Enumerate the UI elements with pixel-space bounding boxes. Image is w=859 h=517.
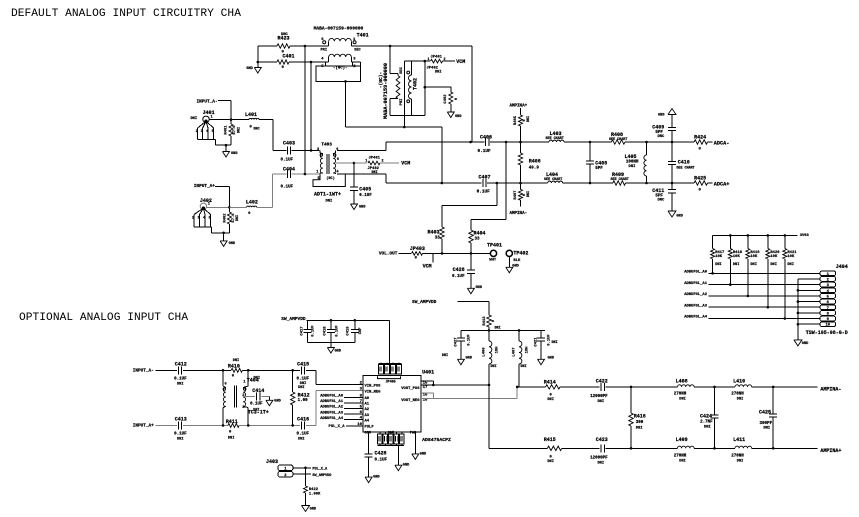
svg-text:JP401: JP401 — [431, 56, 443, 60]
svg-text:C414: C414 — [252, 388, 264, 394]
svg-text:VCM: VCM — [456, 59, 465, 65]
svg-text:3: 3 — [201, 130, 203, 134]
svg-text:ADBUFSL_A1: ADBUFSL_A1 — [320, 400, 344, 404]
svg-text:C406: C406 — [480, 134, 492, 140]
svg-text:5: 5 — [212, 130, 214, 134]
svg-text:2: 2 — [192, 217, 194, 221]
svg-text:GND: GND — [373, 476, 380, 480]
svg-text:0: 0 — [699, 189, 702, 193]
svg-text:0.1UF: 0.1UF — [452, 275, 465, 279]
svg-text:33: 33 — [435, 237, 441, 241]
svg-text:OPTIONAL ANALOG INPUT CHA: OPTIONAL ANALOG INPUT CHA — [19, 312, 188, 324]
svg-text:L405: L405 — [624, 154, 636, 160]
svg-text:A4: A4 — [365, 419, 370, 423]
svg-text:DNI: DNI — [636, 426, 643, 430]
svg-text:C403: C403 — [283, 141, 295, 147]
svg-text:DNI: DNI — [547, 460, 553, 464]
svg-text:DNC: DNC — [254, 128, 260, 132]
svg-text:DNI: DNI — [629, 165, 636, 169]
svg-text:3: 3 — [242, 406, 244, 410]
svg-text:BLK: BLK — [513, 259, 521, 263]
svg-text:C416: C416 — [297, 416, 309, 422]
svg-text:MABA-007159-000000: MABA-007159-000000 — [314, 26, 364, 32]
svg-text:R402: R402 — [223, 213, 227, 223]
svg-text:16: 16 — [423, 394, 428, 398]
svg-text:GND: GND — [466, 356, 473, 360]
svg-text:C410: C410 — [678, 160, 690, 166]
svg-text:270NH: 270NH — [731, 455, 744, 459]
svg-text:17: 17 — [423, 386, 428, 390]
svg-text:SW_AMPVDD: SW_AMPVDD — [312, 474, 331, 478]
svg-text:DNI: DNI — [254, 376, 260, 380]
svg-text:ADBUFSL_A2: ADBUFSL_A2 — [684, 293, 708, 297]
svg-text:PUL_X_A: PUL_X_A — [312, 468, 328, 472]
svg-text:C426: C426 — [453, 267, 465, 273]
svg-text:2: 2 — [382, 160, 384, 164]
svg-text:GND: GND — [335, 350, 342, 354]
svg-text:1UH: 1UH — [526, 346, 530, 354]
svg-text:1.00K: 1.00K — [309, 492, 321, 496]
svg-text:0: 0 — [455, 97, 459, 100]
svg-text:JP403: JP403 — [410, 246, 425, 252]
svg-text:0: 0 — [250, 126, 253, 130]
svg-text:AMPINA+: AMPINA+ — [510, 104, 528, 108]
svg-text:0.1UF: 0.1UF — [359, 194, 372, 198]
svg-text:GND: GND — [310, 508, 317, 512]
svg-text:DNI: DNI — [787, 263, 793, 267]
svg-text:18: 18 — [423, 399, 428, 403]
svg-text:DNI: DNI — [527, 191, 531, 197]
svg-text:GND: GND — [676, 215, 683, 219]
svg-text:R423: R423 — [278, 36, 290, 42]
svg-text:0.1UF: 0.1UF — [297, 433, 310, 437]
svg-text:1: 1 — [365, 160, 367, 164]
svg-text:3: 3 — [353, 58, 356, 62]
svg-text:VCM: VCM — [423, 263, 432, 269]
svg-text:J403: J403 — [266, 459, 278, 465]
svg-text:1: 1 — [316, 171, 318, 175]
svg-text:300: 300 — [636, 421, 644, 425]
svg-text:L406: L406 — [483, 347, 487, 357]
svg-text:R416: R416 — [634, 413, 646, 419]
svg-text:DNI: DNI — [547, 398, 553, 402]
svg-text:6: 6 — [336, 148, 338, 152]
svg-text:SEE CHART: SEE CHART — [609, 138, 627, 142]
svg-text:L407: L407 — [513, 347, 517, 357]
svg-text:ADBUFSL_A3: ADBUFSL_A3 — [320, 411, 344, 415]
svg-text:10: 10 — [826, 324, 831, 328]
svg-text:VOUT_POS: VOUT_POS — [401, 387, 420, 391]
svg-text:SEC: SEC — [354, 49, 361, 53]
svg-text:AMPINA-: AMPINA- — [510, 212, 528, 216]
svg-text:4: 4 — [321, 58, 324, 62]
svg-text:0: 0 — [492, 319, 496, 322]
svg-text:GND: GND — [229, 242, 236, 246]
svg-text:U401: U401 — [422, 369, 434, 375]
svg-text:C405: C405 — [359, 186, 371, 192]
svg-text:ADT1-1WT+: ADT1-1WT+ — [314, 191, 341, 197]
svg-text:6: 6 — [225, 382, 227, 386]
svg-text:SEE CHART: SEE CHART — [546, 137, 564, 141]
svg-text:DNI: DNI — [236, 215, 240, 221]
svg-text:DNI: DNI — [442, 354, 448, 358]
svg-text:DNI: DNI — [763, 426, 770, 430]
svg-text:R411: R411 — [226, 419, 238, 425]
svg-text:MABA-007159-000000: MABA-007159-000000 — [383, 63, 389, 119]
svg-text:0.1UF: 0.1UF — [281, 186, 294, 190]
svg-text:ADBUFSL_A0: ADBUFSL_A0 — [320, 395, 344, 399]
svg-text:1: 1 — [208, 203, 210, 207]
svg-text:DNI: DNI — [253, 409, 259, 413]
svg-text:R419: R419 — [750, 251, 760, 255]
svg-text:R405: R405 — [514, 115, 518, 125]
svg-text:TP401: TP401 — [487, 242, 502, 248]
svg-text:3: 3 — [317, 148, 319, 152]
svg-text:A2: A2 — [365, 408, 370, 412]
svg-text:-(NC)-: -(NC)- — [333, 65, 347, 70]
svg-text:0: 0 — [699, 148, 702, 152]
svg-text:ADCA-: ADCA- — [714, 141, 730, 147]
svg-text:R424: R424 — [694, 135, 706, 141]
svg-text:DNI: DNI — [521, 365, 527, 369]
svg-text:R401: R401 — [225, 125, 229, 135]
svg-text:R425: R425 — [694, 176, 706, 182]
svg-text:DNI: DNI — [704, 425, 711, 429]
svg-text:DNI: DNI — [527, 116, 531, 122]
svg-text:DNI: DNI — [298, 438, 304, 442]
svg-text:VIN_NEG: VIN_NEG — [365, 390, 382, 394]
svg-text:C418: C418 — [324, 326, 328, 336]
svg-text:AMPINA-: AMPINA- — [820, 387, 841, 393]
svg-text:DNI: DNI — [737, 397, 743, 401]
svg-text:SEE CHART: SEE CHART — [544, 178, 562, 182]
svg-text:(NC): (NC) — [326, 176, 335, 181]
svg-text:SW_AMPVDD: SW_AMPVDD — [281, 316, 306, 322]
svg-text:DNI: DNI — [598, 400, 604, 404]
svg-text:ADBUFSL_A1: ADBUFSL_A1 — [684, 282, 708, 286]
svg-text:0.1UF: 0.1UF — [281, 159, 294, 163]
svg-text:C423: C423 — [596, 437, 608, 443]
svg-text:0.1UF: 0.1UF — [174, 433, 187, 437]
svg-text:SEC: SEC — [400, 66, 404, 74]
svg-text:R420: R420 — [770, 251, 780, 255]
svg-text:R403: R403 — [427, 229, 439, 235]
svg-text:GND: GND — [658, 114, 665, 118]
svg-text:DNI: DNI — [598, 461, 604, 465]
svg-text:DNI: DNI — [298, 386, 304, 390]
svg-text:9: 9 — [337, 158, 339, 162]
svg-text:0.1UF: 0.1UF — [335, 325, 339, 337]
svg-text:GND: GND — [403, 464, 410, 468]
svg-text:GND: GND — [231, 152, 238, 156]
svg-text:DNI: DNI — [177, 383, 183, 387]
svg-text:10K: 10K — [750, 255, 758, 259]
svg-text:C413: C413 — [175, 416, 187, 422]
svg-text:A0: A0 — [365, 397, 370, 401]
svg-text:0: 0 — [232, 374, 235, 378]
svg-text:VIN_POS: VIN_POS — [365, 384, 382, 388]
svg-text:C402: C402 — [444, 94, 448, 104]
svg-text:C417: C417 — [301, 326, 305, 336]
svg-text:ADBUFSL_A4: ADBUFSL_A4 — [684, 316, 708, 320]
svg-text:SEE CHART: SEE CHART — [611, 178, 629, 182]
svg-text:TSW-105-08-G-D: TSW-105-08-G-D — [806, 330, 848, 336]
svg-text:C401: C401 — [283, 54, 295, 60]
svg-text:DNC: DNC — [657, 135, 665, 139]
svg-text:2: 2 — [242, 394, 244, 398]
svg-text:DNI: DNI — [228, 436, 234, 440]
svg-text:JP401: JP401 — [369, 157, 381, 161]
svg-text:INPUT_A-: INPUT_A- — [133, 368, 154, 373]
svg-text:DNI: DNI — [435, 71, 441, 75]
svg-text:C415: C415 — [297, 361, 309, 367]
svg-text:SEE CHART: SEE CHART — [676, 166, 694, 170]
svg-text:0: 0 — [282, 66, 285, 70]
svg-text:L411: L411 — [733, 437, 745, 443]
svg-text:C411: C411 — [652, 188, 664, 194]
svg-text:1: 1 — [428, 58, 430, 62]
svg-text:SW_AMPVDD: SW_AMPVDD — [412, 299, 437, 305]
svg-text:5: 5 — [209, 217, 211, 221]
svg-text:0.1UF: 0.1UF — [250, 403, 263, 407]
svg-text:A3: A3 — [365, 414, 370, 418]
svg-text:2.7NF: 2.7NF — [700, 420, 713, 424]
svg-text:INPUT_A-: INPUT_A- — [197, 99, 218, 104]
svg-text:DNI: DNI — [238, 127, 242, 133]
svg-text:3: 3 — [198, 217, 200, 221]
svg-text:DNI: DNI — [679, 397, 685, 401]
svg-text:C428: C428 — [375, 451, 387, 457]
svg-text:0.1UF: 0.1UF — [375, 458, 388, 462]
svg-text:DNC: DNC — [657, 199, 665, 203]
svg-text:R415: R415 — [544, 437, 556, 443]
svg-text:0.1UF: 0.1UF — [468, 334, 472, 346]
svg-text:0.1UF: 0.1UF — [297, 378, 310, 382]
svg-text:R413: R413 — [483, 316, 487, 326]
svg-text:10K: 10K — [787, 255, 795, 259]
svg-text:WHT: WHT — [489, 259, 497, 263]
svg-text:1UF: 1UF — [359, 327, 363, 335]
svg-text:10K: 10K — [715, 255, 723, 259]
svg-text:DNI: DNI — [191, 117, 197, 121]
svg-text:J404: J404 — [836, 264, 848, 270]
svg-text:VOUT_NEG: VOUT_NEG — [401, 399, 420, 403]
svg-text:3V03: 3V03 — [800, 234, 810, 238]
svg-text:COM: COM — [388, 432, 394, 436]
svg-text:DNI: DNI — [770, 263, 776, 267]
svg-text:DNI: DNI — [715, 263, 721, 267]
svg-text:INPUT_A+: INPUT_A+ — [133, 423, 154, 428]
svg-text:VCM: VCM — [401, 161, 410, 167]
svg-text:R410: R410 — [228, 363, 240, 369]
svg-text:C404: C404 — [283, 167, 295, 173]
svg-text:GND: GND — [548, 356, 555, 360]
svg-text:100NH: 100NH — [626, 161, 639, 165]
svg-text:C407: C407 — [479, 174, 491, 180]
svg-text:0.1UF: 0.1UF — [174, 378, 187, 382]
svg-text:2: 2 — [196, 130, 198, 134]
svg-text:GND: GND — [476, 286, 483, 290]
svg-text:C422: C422 — [596, 378, 608, 384]
svg-text:INPUT_A+: INPUT_A+ — [194, 184, 215, 189]
svg-text:GND: GND — [455, 115, 462, 119]
svg-text:12000PF: 12000PF — [590, 395, 608, 399]
svg-text:ADBUFSL_A3: ADBUFSL_A3 — [684, 304, 708, 308]
svg-text:T401: T401 — [357, 33, 369, 39]
svg-text:L403: L403 — [550, 131, 562, 137]
svg-text:C412: C412 — [175, 361, 187, 367]
svg-text:C419: C419 — [346, 326, 350, 336]
svg-text:2: 2 — [444, 58, 446, 62]
svg-text:DNI: DNI — [737, 459, 743, 463]
svg-text:0.1UF: 0.1UF — [478, 149, 492, 154]
svg-text:L410: L410 — [733, 378, 745, 384]
svg-text:ADBUFSL_A2: ADBUFSL_A2 — [320, 406, 344, 410]
svg-text:L402: L402 — [246, 200, 258, 206]
svg-text:L408: L408 — [676, 378, 688, 384]
svg-text:10K: 10K — [733, 255, 741, 259]
svg-text:C427: C427 — [455, 337, 459, 347]
svg-text:DNI: DNI — [491, 365, 497, 369]
svg-text:C409: C409 — [652, 125, 664, 131]
svg-text:PUL_X_A: PUL_X_A — [329, 425, 346, 429]
svg-text:GND: GND — [246, 67, 253, 71]
svg-text:PRI: PRI — [400, 99, 404, 106]
svg-text:GND: GND — [802, 342, 809, 346]
svg-text:4: 4 — [206, 130, 209, 134]
svg-text:AD8475ACPZ: AD8475ACPZ — [422, 437, 451, 443]
svg-text:0.1UF: 0.1UF — [477, 189, 491, 194]
svg-text:DNI: DNI — [750, 263, 756, 267]
svg-text:PULP: PULP — [365, 426, 375, 430]
svg-text:DNI: DNI — [679, 459, 685, 463]
svg-text:GND: GND — [512, 265, 519, 269]
svg-text:R407: R407 — [514, 190, 518, 200]
svg-text:0: 0 — [229, 430, 232, 434]
svg-text:R404: R404 — [474, 230, 486, 236]
svg-text:PRI: PRI — [321, 49, 327, 53]
svg-text:R417: R417 — [715, 251, 725, 255]
svg-text:270NH: 270NH — [731, 393, 744, 397]
svg-text:0: 0 — [550, 393, 553, 397]
svg-text:0: 0 — [415, 257, 418, 261]
svg-text:GND: GND — [420, 452, 427, 456]
svg-text:COM: COM — [364, 432, 370, 436]
svg-text:0: 0 — [248, 212, 251, 216]
svg-text:JP405: JP405 — [386, 380, 396, 384]
svg-text:1: 1 — [243, 381, 245, 385]
svg-text:C424: C424 — [700, 413, 712, 419]
svg-text:0: 0 — [550, 455, 553, 459]
svg-text:0.1UF: 0.1UF — [312, 325, 316, 337]
svg-text:VOL.OUT: VOL.OUT — [379, 252, 398, 257]
svg-text:270NH: 270NH — [674, 455, 687, 459]
svg-text:GND: GND — [274, 399, 281, 403]
svg-text:-(NC)-: -(NC)- — [378, 71, 384, 88]
svg-text:DNI: DNI — [177, 438, 183, 442]
svg-text:5PF: 5PF — [595, 167, 603, 171]
svg-text:R418: R418 — [733, 251, 743, 255]
svg-text:AMPINA+: AMPINA+ — [820, 448, 841, 454]
svg-text:DNI: DNI — [326, 200, 333, 204]
svg-text:ADBUFSL_A0: ADBUFSL_A0 — [684, 271, 708, 275]
svg-text:T403: T403 — [321, 142, 332, 147]
svg-text:TP402: TP402 — [513, 251, 528, 257]
svg-text:R412: R412 — [298, 392, 310, 398]
svg-text:12000PF: 12000PF — [590, 457, 608, 461]
svg-text:33: 33 — [475, 238, 481, 242]
svg-text:10K: 10K — [770, 255, 778, 259]
svg-text:1UH: 1UH — [496, 346, 500, 354]
svg-text:R406: R406 — [529, 159, 541, 165]
svg-text:ADCA+: ADCA+ — [714, 182, 730, 188]
svg-text:49.9: 49.9 — [529, 167, 540, 171]
svg-text:C421: C421 — [535, 337, 539, 347]
svg-text:1: 1 — [211, 116, 213, 120]
svg-text:R414: R414 — [544, 379, 556, 385]
svg-text:T402: T402 — [413, 78, 419, 90]
svg-text:C425: C425 — [759, 409, 771, 415]
svg-text:4: 4 — [203, 217, 206, 221]
svg-text:DNI: DNI — [733, 263, 739, 267]
svg-text:A1: A1 — [365, 403, 370, 407]
svg-text:GND: GND — [359, 206, 366, 210]
svg-text:J401: J401 — [203, 110, 215, 116]
svg-text:DEFAULT ANALOG INPUT CIRCUITRY: DEFAULT ANALOG INPUT CIRCUITRY CHA — [11, 8, 241, 20]
svg-text:R421: R421 — [787, 251, 797, 255]
svg-text:C408: C408 — [595, 160, 607, 166]
svg-text:L401: L401 — [245, 112, 257, 118]
svg-text:1.00: 1.00 — [298, 399, 309, 403]
svg-text:270NH: 270NH — [674, 393, 687, 397]
svg-text:L409: L409 — [676, 437, 688, 443]
svg-text:DNI: DNI — [552, 341, 558, 345]
svg-text:ADBUFSL_A4: ADBUFSL_A4 — [320, 417, 344, 421]
